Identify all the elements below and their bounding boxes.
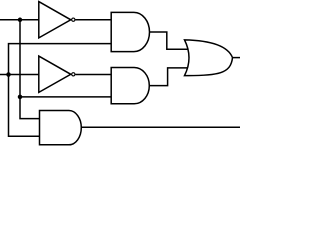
wire net A branch: right to AND2 input 2 [20, 96, 112, 98]
AND gate U3 (top) [111, 12, 149, 51]
wire AND1 output to OR input 1 [149, 32, 188, 49]
junction dot on net A vertical at AND2 branch [18, 95, 23, 100]
wire input A (row 1) [0, 19, 40, 21]
wire AND2 output to OR input 2 [149, 68, 189, 86]
junction dot on wire B at vertical branch [6, 72, 11, 77]
junction dot on wire A at vertical branch [18, 18, 23, 23]
AND gate U5 (bottom) [40, 111, 82, 145]
wire net B branch: up to AND1 input 2 and down to AND3 input 2 [9, 44, 112, 137]
inverter U1 (NOT gate, row 1) [39, 2, 75, 38]
wire input B (row 2) [0, 74, 40, 76]
wire net A branch: down from wire A dot to AND3 input 1 [20, 20, 41, 119]
inverter U2 (NOT gate, row 2) [39, 56, 75, 92]
wire U2 output to AND2 input 1 [76, 74, 112, 76]
wire U1 output to AND1 input 1 [76, 19, 112, 21]
wire OR output [233, 57, 241, 59]
wire AND3 output [81, 126, 240, 128]
OR gate U6 [185, 40, 233, 76]
AND gate U4 (middle) [111, 68, 149, 104]
